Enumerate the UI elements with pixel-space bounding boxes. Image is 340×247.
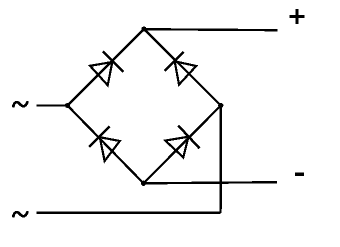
wire AC2 vertical riser to node R (219, 106, 221, 213)
diode D4 cathode bar (178, 126, 199, 149)
AC input terminal 1 (~) (13, 102, 27, 106)
junction node T (141, 26, 146, 31)
diode D3 triangle (100, 137, 120, 161)
wire AC1 to node L (37, 104, 68, 106)
diode D1 cathode bar (103, 52, 124, 73)
diode D3 cathode bar (89, 126, 109, 147)
junction node B (141, 181, 146, 186)
wire node T to node R (top-right arm) (144, 29, 221, 106)
junction node L (65, 103, 70, 108)
wire node B to node R (bottom-right arm) (144, 106, 221, 184)
wire node T to + output (144, 29, 278, 30)
diode D1 triangle (90, 62, 112, 85)
diode D2 triangle (175, 61, 197, 84)
junction node R (218, 103, 223, 108)
- output label (295, 173, 304, 177)
AC input terminal 2 (~) (13, 212, 27, 216)
diode D4 triangle (165, 137, 188, 158)
wire node L to node B (bottom-left arm) (68, 106, 144, 184)
+ output label (290, 9, 305, 24)
wire AC2 horizontal run (37, 212, 221, 214)
diode D2 cathode bar (165, 52, 184, 71)
wire node B to - output (144, 182, 278, 183)
wire node L to node T (top-left arm) (68, 29, 145, 106)
